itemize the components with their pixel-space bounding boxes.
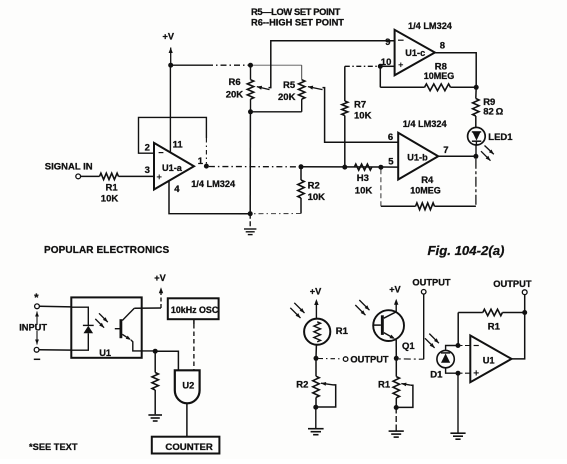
svg-text:10K: 10K: [308, 192, 326, 203]
node R2 junction: [299, 164, 304, 169]
resistor R3 (H3): [354, 164, 372, 170]
svg-text:R1: R1: [106, 182, 119, 193]
potentiometer R2 photocell: [315, 358, 317, 376]
wire collector to +V: [134, 307, 161, 309]
node R8-R9 junction: [474, 85, 479, 90]
svg-text:R2: R2: [308, 181, 320, 192]
wire feedback left vertical: [457, 313, 459, 346]
node emitter junction: [153, 349, 158, 354]
svg-text:H3: H3: [357, 173, 369, 184]
svg-text:1: 1: [198, 156, 204, 167]
potentiometer R6: [250, 65, 252, 80]
resistor R2: [300, 167, 302, 180]
oscillator box 10kHz OSC: [168, 298, 219, 319]
svg-text:+V: +V: [163, 32, 175, 42]
svg-text:R5: R5: [283, 80, 296, 91]
svg-text:20K: 20K: [226, 90, 244, 101]
counter box: [152, 437, 220, 454]
svg-text:U2: U2: [182, 380, 194, 390]
svg-text:1/4 LM324: 1/4 LM324: [408, 21, 453, 31]
svg-text:10kHz OSC: 10kHz OSC: [171, 305, 219, 315]
potentiometer R1 phototransistor: [395, 358, 397, 376]
svg-text:R1: R1: [336, 326, 349, 337]
LED1 indicator: [468, 127, 486, 145]
svg-text:U1: U1: [99, 348, 111, 358]
wire op amp output to feedback: [512, 313, 525, 359]
svg-text:2: 2: [145, 143, 150, 154]
svg-text:INPUT: INPUT: [19, 323, 47, 333]
wire U1-a pin 4 to ground bus: [169, 181, 250, 214]
svg-text:10MEG: 10MEG: [424, 71, 455, 81]
svg-text:COUNTER: COUNTER: [165, 442, 213, 453]
svg-text:1/4 LM324: 1/4 LM324: [191, 179, 236, 189]
wire U1-c pin 10 node: [345, 65, 381, 67]
ground photocell circuit: [315, 407, 317, 428]
svg-text:U1: U1: [483, 356, 495, 366]
node photodiode cathode junction: [456, 343, 461, 348]
wire reference divider to ground junction: [249, 112, 251, 214]
svg-text:R2: R2: [296, 380, 308, 391]
wire U1-c output pin 8 to feedback corner: [435, 53, 476, 88]
svg-text:R5—LOW SET POINT: R5—LOW SET POINT: [251, 7, 341, 17]
svg-text:11: 11: [173, 140, 184, 151]
wire U1-a output node bus: [209, 166, 299, 168]
node R6-R5 bottom junction: [248, 109, 253, 114]
svg-text:OUTPUT: OUTPUT: [350, 355, 389, 365]
resistor R7: [344, 66, 346, 101]
power +V arrow optocoupler: [160, 289, 162, 308]
svg-text:9: 9: [385, 37, 390, 48]
wire emitter node to gate U2: [155, 351, 178, 369]
ground optocoupler resistor: [148, 414, 162, 416]
svg-text:POPULAR ELECTRONICS: POPULAR ELECTRONICS: [44, 245, 169, 256]
terminal INPUT minus: [34, 347, 39, 352]
svg-text:20K: 20K: [278, 92, 296, 103]
node U1-a output pin 1: [204, 164, 209, 169]
ground phototransistor circuit: [395, 408, 397, 431]
wire anode node to op amp non-inverting input: [461, 372, 471, 374]
wire U1-a feedback loop pin1 to pin2: [139, 117, 207, 153]
node photodiode anode junction: [456, 371, 461, 376]
svg-text:10K: 10K: [354, 110, 372, 121]
resistor R9: [475, 87, 477, 98]
LED1 light emission arrows: [485, 146, 494, 155]
wire INPUT- to optocoupler: [39, 349, 71, 351]
wire U1-b output pin 7: [438, 155, 473, 157]
node +V rail junction at U1-a pin 11: [168, 63, 173, 68]
svg-text:R1: R1: [378, 380, 391, 391]
node U1-b output junction: [473, 154, 478, 159]
svg-text:D1: D1: [430, 369, 443, 380]
node U1-c pin 10 junction: [378, 64, 383, 69]
wire R8 feedback vertical: [379, 66, 381, 87]
wire emitter down to output node: [395, 340, 397, 359]
light arrows photoresistor: [294, 303, 304, 313]
wire R1 wiper loop: [396, 385, 413, 407]
gate U2: [175, 370, 200, 403]
svg-text:R4: R4: [421, 175, 434, 186]
svg-text:Fig. 104-2(a): Fig. 104-2(a): [428, 243, 505, 258]
svg-text:U1-a: U1-a: [162, 163, 183, 173]
svg-text:10K: 10K: [355, 186, 373, 197]
wire U1-a pin 11 to +V rail: [169, 65, 171, 152]
resistor R4 feedback: [435, 205, 476, 207]
wire photodiode bottom lead: [446, 368, 458, 373]
svg-text:+V: +V: [154, 273, 166, 283]
svg-text:U1-c: U1-c: [405, 48, 425, 58]
ground main circuit: [249, 214, 251, 229]
svg-text:8: 8: [440, 41, 445, 52]
wire LED1 cathode to output node: [475, 145, 477, 156]
wire INPUT+ to optocoupler: [39, 305, 71, 308]
terminal OUTPUT photocell: [319, 358, 342, 360]
optocoupler U1 package: [71, 297, 141, 357]
svg-text:*: *: [34, 292, 39, 304]
node main ground junction: [248, 211, 253, 216]
svg-text:10MEG: 10MEG: [410, 185, 441, 195]
svg-text:U1-b: U1-b: [407, 153, 428, 163]
op-amp U1 photodiode: [470, 336, 511, 383]
op-amp U1-b: [398, 133, 438, 180]
wire anode node to ground: [457, 373, 459, 433]
wire U2 output to counter: [186, 403, 188, 436]
svg-text:*SEE TEXT: *SEE TEXT: [29, 442, 78, 452]
svg-text:R1: R1: [488, 322, 501, 333]
wire output terminal down: [524, 295, 526, 313]
resistor R1 input: [81, 175, 100, 177]
phototransistor Q1: [373, 310, 404, 341]
wire oscillator to gate U2: [193, 319, 195, 324]
node R1 bottom junction: [394, 405, 399, 410]
optocoupler phototransistor: [120, 319, 123, 338]
wire +V rail: [171, 64, 207, 66]
svg-text:7: 7: [443, 145, 448, 156]
node R2 bottom junction: [313, 405, 318, 410]
node feedback junction: [522, 310, 527, 315]
svg-text:OUTPUT: OUTPUT: [493, 279, 532, 289]
svg-text:+V: +V: [389, 285, 401, 295]
light arrows photodiode: [429, 334, 439, 344]
ground photodiode circuit: [450, 432, 465, 434]
svg-text:R6--HIGH SET POINT: R6--HIGH SET POINT: [251, 17, 344, 27]
resistor R8: [380, 86, 424, 88]
svg-text:10K: 10K: [101, 194, 119, 205]
op-amp U1-c: [395, 30, 435, 76]
wire output node down to R4: [475, 159, 477, 207]
wire R5 bottom to R6 bottom: [251, 111, 302, 113]
node phototransistor output junction: [394, 356, 399, 361]
wire photoresistor to output node: [315, 345, 317, 359]
photoresistor R1: [304, 319, 330, 345]
svg-text:R6: R6: [229, 77, 241, 88]
potentiometer R5: [301, 65, 303, 80]
op-amp U1-a: [154, 143, 194, 190]
wire +V rail to R5 top: [251, 64, 302, 66]
svg-text:LED1: LED1: [488, 132, 513, 143]
light arrows phototransistor: [359, 300, 369, 310]
optocoupler internal LED: [71, 307, 88, 325]
node R7 junction: [342, 165, 347, 170]
wire R6 wiper to U1-c pin 9: [269, 41, 395, 88]
resistor pulldown at emitter: [154, 351, 156, 372]
svg-text:SIGNAL IN: SIGNAL IN: [45, 162, 93, 173]
wire cathode node to op amp inverting input: [461, 345, 471, 347]
svg-text:OUTPUT: OUTPUT: [412, 278, 451, 288]
svg-text:3: 3: [145, 165, 150, 176]
wire R4 to pin 5 node: [380, 169, 382, 206]
wire R2 bottom to ground junction: [253, 213, 302, 215]
wire R5 wiper to U1-b pin 6: [323, 88, 399, 143]
node R6 top junction: [248, 63, 253, 68]
svg-text:Q1: Q1: [402, 341, 415, 352]
optocoupler light arrows: [99, 313, 108, 322]
wire R2 wiper loop: [316, 385, 336, 407]
power +V supply arrow: [170, 48, 172, 64]
node R3 right junction: [378, 165, 383, 170]
svg-text:R7: R7: [354, 99, 366, 110]
resistor R1 feedback photodiode amp: [458, 312, 483, 314]
svg-text:82 Ω: 82 Ω: [483, 107, 503, 118]
photodiode D1: [437, 350, 454, 367]
svg-text:6: 6: [388, 132, 393, 143]
wire photodiode top lead: [446, 346, 458, 351]
polarity arrows INPUT: [36, 312, 38, 326]
svg-text:5: 5: [388, 157, 394, 168]
svg-text:+V: +V: [310, 287, 322, 297]
svg-text:1/4 LM324: 1/4 LM324: [403, 119, 448, 129]
node photocell output junction: [314, 356, 319, 361]
svg-text:4: 4: [174, 184, 180, 195]
